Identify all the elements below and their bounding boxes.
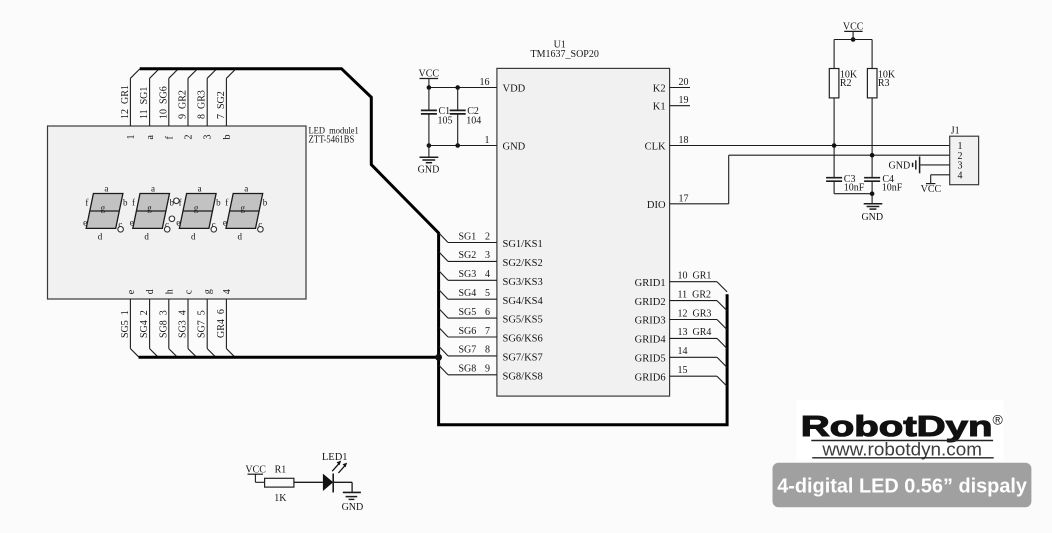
svg-text:SG7: SG7 bbox=[459, 345, 477, 356]
svg-text:12 GR3: 12 GR3 bbox=[678, 308, 712, 319]
svg-text:7: 7 bbox=[485, 326, 490, 337]
svg-text:19: 19 bbox=[679, 95, 689, 106]
svg-text:e: e bbox=[176, 218, 180, 228]
svg-text:d: d bbox=[238, 232, 243, 242]
svg-text:8 GR3: 8 GR3 bbox=[197, 90, 208, 119]
svg-text:g: g bbox=[240, 203, 245, 213]
svg-text:11 GR2: 11 GR2 bbox=[678, 289, 712, 300]
svg-text:14: 14 bbox=[678, 346, 688, 357]
svg-text:LED1: LED1 bbox=[322, 452, 348, 463]
svg-text:VCC: VCC bbox=[419, 69, 440, 80]
svg-text:e: e bbox=[223, 218, 227, 228]
svg-text:K1: K1 bbox=[653, 102, 666, 113]
svg-text:GND: GND bbox=[418, 165, 440, 176]
svg-text:4: 4 bbox=[222, 289, 233, 294]
svg-text:SG5/KS5: SG5/KS5 bbox=[503, 315, 543, 326]
svg-text:d: d bbox=[98, 232, 103, 242]
svg-text:SG3: SG3 bbox=[459, 269, 477, 280]
svg-text:6: 6 bbox=[485, 307, 490, 318]
svg-text:GRID2: GRID2 bbox=[635, 297, 666, 308]
svg-text:d: d bbox=[191, 232, 196, 242]
svg-text:SG2/KS2: SG2/KS2 bbox=[503, 258, 543, 269]
svg-text:SG8/KS8: SG8/KS8 bbox=[503, 371, 543, 382]
svg-text:7 SG2: 7 SG2 bbox=[216, 91, 227, 119]
svg-text:GR4 6: GR4 6 bbox=[216, 309, 227, 338]
svg-text:VDD: VDD bbox=[503, 84, 526, 95]
svg-text:ZTT-5461BS: ZTT-5461BS bbox=[309, 135, 355, 146]
svg-text:b: b bbox=[123, 198, 128, 208]
svg-text:TM1637_SOP20: TM1637_SOP20 bbox=[531, 49, 599, 60]
svg-text:g: g bbox=[101, 203, 106, 213]
svg-text:f: f bbox=[132, 198, 135, 208]
svg-text:2: 2 bbox=[485, 231, 490, 242]
svg-text:104: 104 bbox=[466, 116, 481, 127]
svg-text:GND: GND bbox=[342, 502, 364, 513]
svg-text:R1: R1 bbox=[275, 465, 287, 476]
svg-text:e: e bbox=[130, 218, 134, 228]
svg-text:SG3 4: SG3 4 bbox=[178, 310, 189, 338]
svg-text:d: d bbox=[145, 289, 156, 294]
svg-text:9: 9 bbox=[485, 364, 490, 375]
svg-text:GND: GND bbox=[503, 142, 526, 153]
svg-text:3: 3 bbox=[203, 135, 214, 140]
svg-text:g: g bbox=[203, 289, 214, 294]
svg-text:a: a bbox=[151, 184, 155, 194]
svg-text:c: c bbox=[184, 289, 195, 294]
svg-text:g: g bbox=[194, 203, 199, 213]
svg-text:RobotDyn: RobotDyn bbox=[801, 411, 993, 443]
svg-text:20: 20 bbox=[679, 77, 689, 88]
svg-text:SG8: SG8 bbox=[459, 364, 477, 375]
svg-text:GRID5: GRID5 bbox=[635, 354, 666, 365]
svg-text:18: 18 bbox=[679, 135, 689, 146]
svg-text:a: a bbox=[104, 184, 108, 194]
svg-text:DIO: DIO bbox=[647, 200, 666, 211]
svg-text:SG4 2: SG4 2 bbox=[139, 310, 150, 338]
svg-text:4: 4 bbox=[958, 171, 963, 182]
svg-text:12 GR1: 12 GR1 bbox=[120, 85, 131, 119]
svg-text:1: 1 bbox=[485, 135, 490, 146]
svg-text:SG6/KS6: SG6/KS6 bbox=[503, 334, 543, 345]
svg-text:SG4: SG4 bbox=[459, 288, 477, 299]
svg-text:R3: R3 bbox=[878, 78, 890, 89]
svg-text:SG6: SG6 bbox=[459, 326, 477, 337]
svg-text:SG4/KS4: SG4/KS4 bbox=[503, 296, 544, 307]
svg-text:®: ® bbox=[993, 412, 1004, 428]
svg-text:g: g bbox=[147, 203, 152, 213]
svg-text:a: a bbox=[198, 184, 202, 194]
svg-text:17: 17 bbox=[679, 193, 689, 204]
svg-text:SG2: SG2 bbox=[459, 250, 477, 261]
svg-text:SG5: SG5 bbox=[459, 307, 477, 318]
svg-text:e: e bbox=[83, 218, 87, 228]
svg-text:9 GR2: 9 GR2 bbox=[178, 90, 189, 119]
svg-text:GND: GND bbox=[889, 160, 911, 171]
svg-text:b: b bbox=[216, 198, 221, 208]
svg-text:1: 1 bbox=[126, 135, 137, 140]
svg-text:h: h bbox=[164, 289, 175, 294]
svg-text:SG5 1: SG5 1 bbox=[120, 310, 131, 338]
svg-text:GND: GND bbox=[861, 212, 883, 223]
svg-text:GRID4: GRID4 bbox=[635, 335, 667, 346]
svg-text:b: b bbox=[222, 135, 233, 140]
svg-text:SG1/KS1: SG1/KS1 bbox=[503, 239, 543, 250]
svg-text:GRID1: GRID1 bbox=[635, 278, 666, 289]
svg-text:10nF: 10nF bbox=[882, 182, 903, 193]
svg-text:10nF: 10nF bbox=[844, 182, 865, 193]
svg-text:8: 8 bbox=[485, 345, 490, 356]
svg-text:SG1: SG1 bbox=[459, 231, 477, 242]
svg-text:K2: K2 bbox=[653, 84, 666, 95]
svg-text:SG8 3: SG8 3 bbox=[158, 310, 169, 338]
svg-text:15: 15 bbox=[678, 365, 688, 376]
svg-text:GRID3: GRID3 bbox=[635, 316, 666, 327]
svg-text:SG7/KS7: SG7/KS7 bbox=[503, 353, 543, 364]
svg-text:b: b bbox=[263, 198, 268, 208]
svg-text:3: 3 bbox=[485, 250, 490, 261]
svg-text:a: a bbox=[145, 135, 156, 140]
svg-text:VCC: VCC bbox=[921, 184, 942, 195]
svg-text:10 GR1: 10 GR1 bbox=[678, 271, 712, 282]
svg-text:f: f bbox=[85, 198, 88, 208]
svg-text:5: 5 bbox=[485, 288, 490, 299]
svg-text:f: f bbox=[225, 198, 228, 208]
svg-text:SG7 5: SG7 5 bbox=[197, 310, 208, 338]
svg-text:2: 2 bbox=[184, 135, 195, 140]
svg-text:e: e bbox=[126, 289, 137, 294]
svg-text:d: d bbox=[144, 232, 149, 242]
svg-text:13 GR4: 13 GR4 bbox=[678, 327, 712, 338]
svg-text:16: 16 bbox=[480, 77, 490, 88]
svg-text:CLK: CLK bbox=[645, 142, 666, 153]
svg-text:4-digital LED 0.56” dispaly: 4-digital LED 0.56” dispaly bbox=[777, 476, 1028, 498]
svg-text:R2: R2 bbox=[840, 78, 852, 89]
svg-text:10 SG6: 10 SG6 bbox=[158, 86, 169, 119]
svg-text:1K: 1K bbox=[274, 493, 287, 504]
svg-text:www.robotdyn.com: www.robotdyn.com bbox=[821, 439, 982, 459]
svg-text:SG3/KS3: SG3/KS3 bbox=[503, 277, 543, 288]
svg-text:a: a bbox=[244, 184, 248, 194]
svg-text:4: 4 bbox=[485, 269, 490, 280]
svg-text:J1: J1 bbox=[951, 126, 960, 137]
svg-text:105: 105 bbox=[438, 116, 453, 127]
svg-text:GRID6: GRID6 bbox=[635, 372, 666, 383]
svg-text:11 SG1: 11 SG1 bbox=[139, 87, 150, 119]
